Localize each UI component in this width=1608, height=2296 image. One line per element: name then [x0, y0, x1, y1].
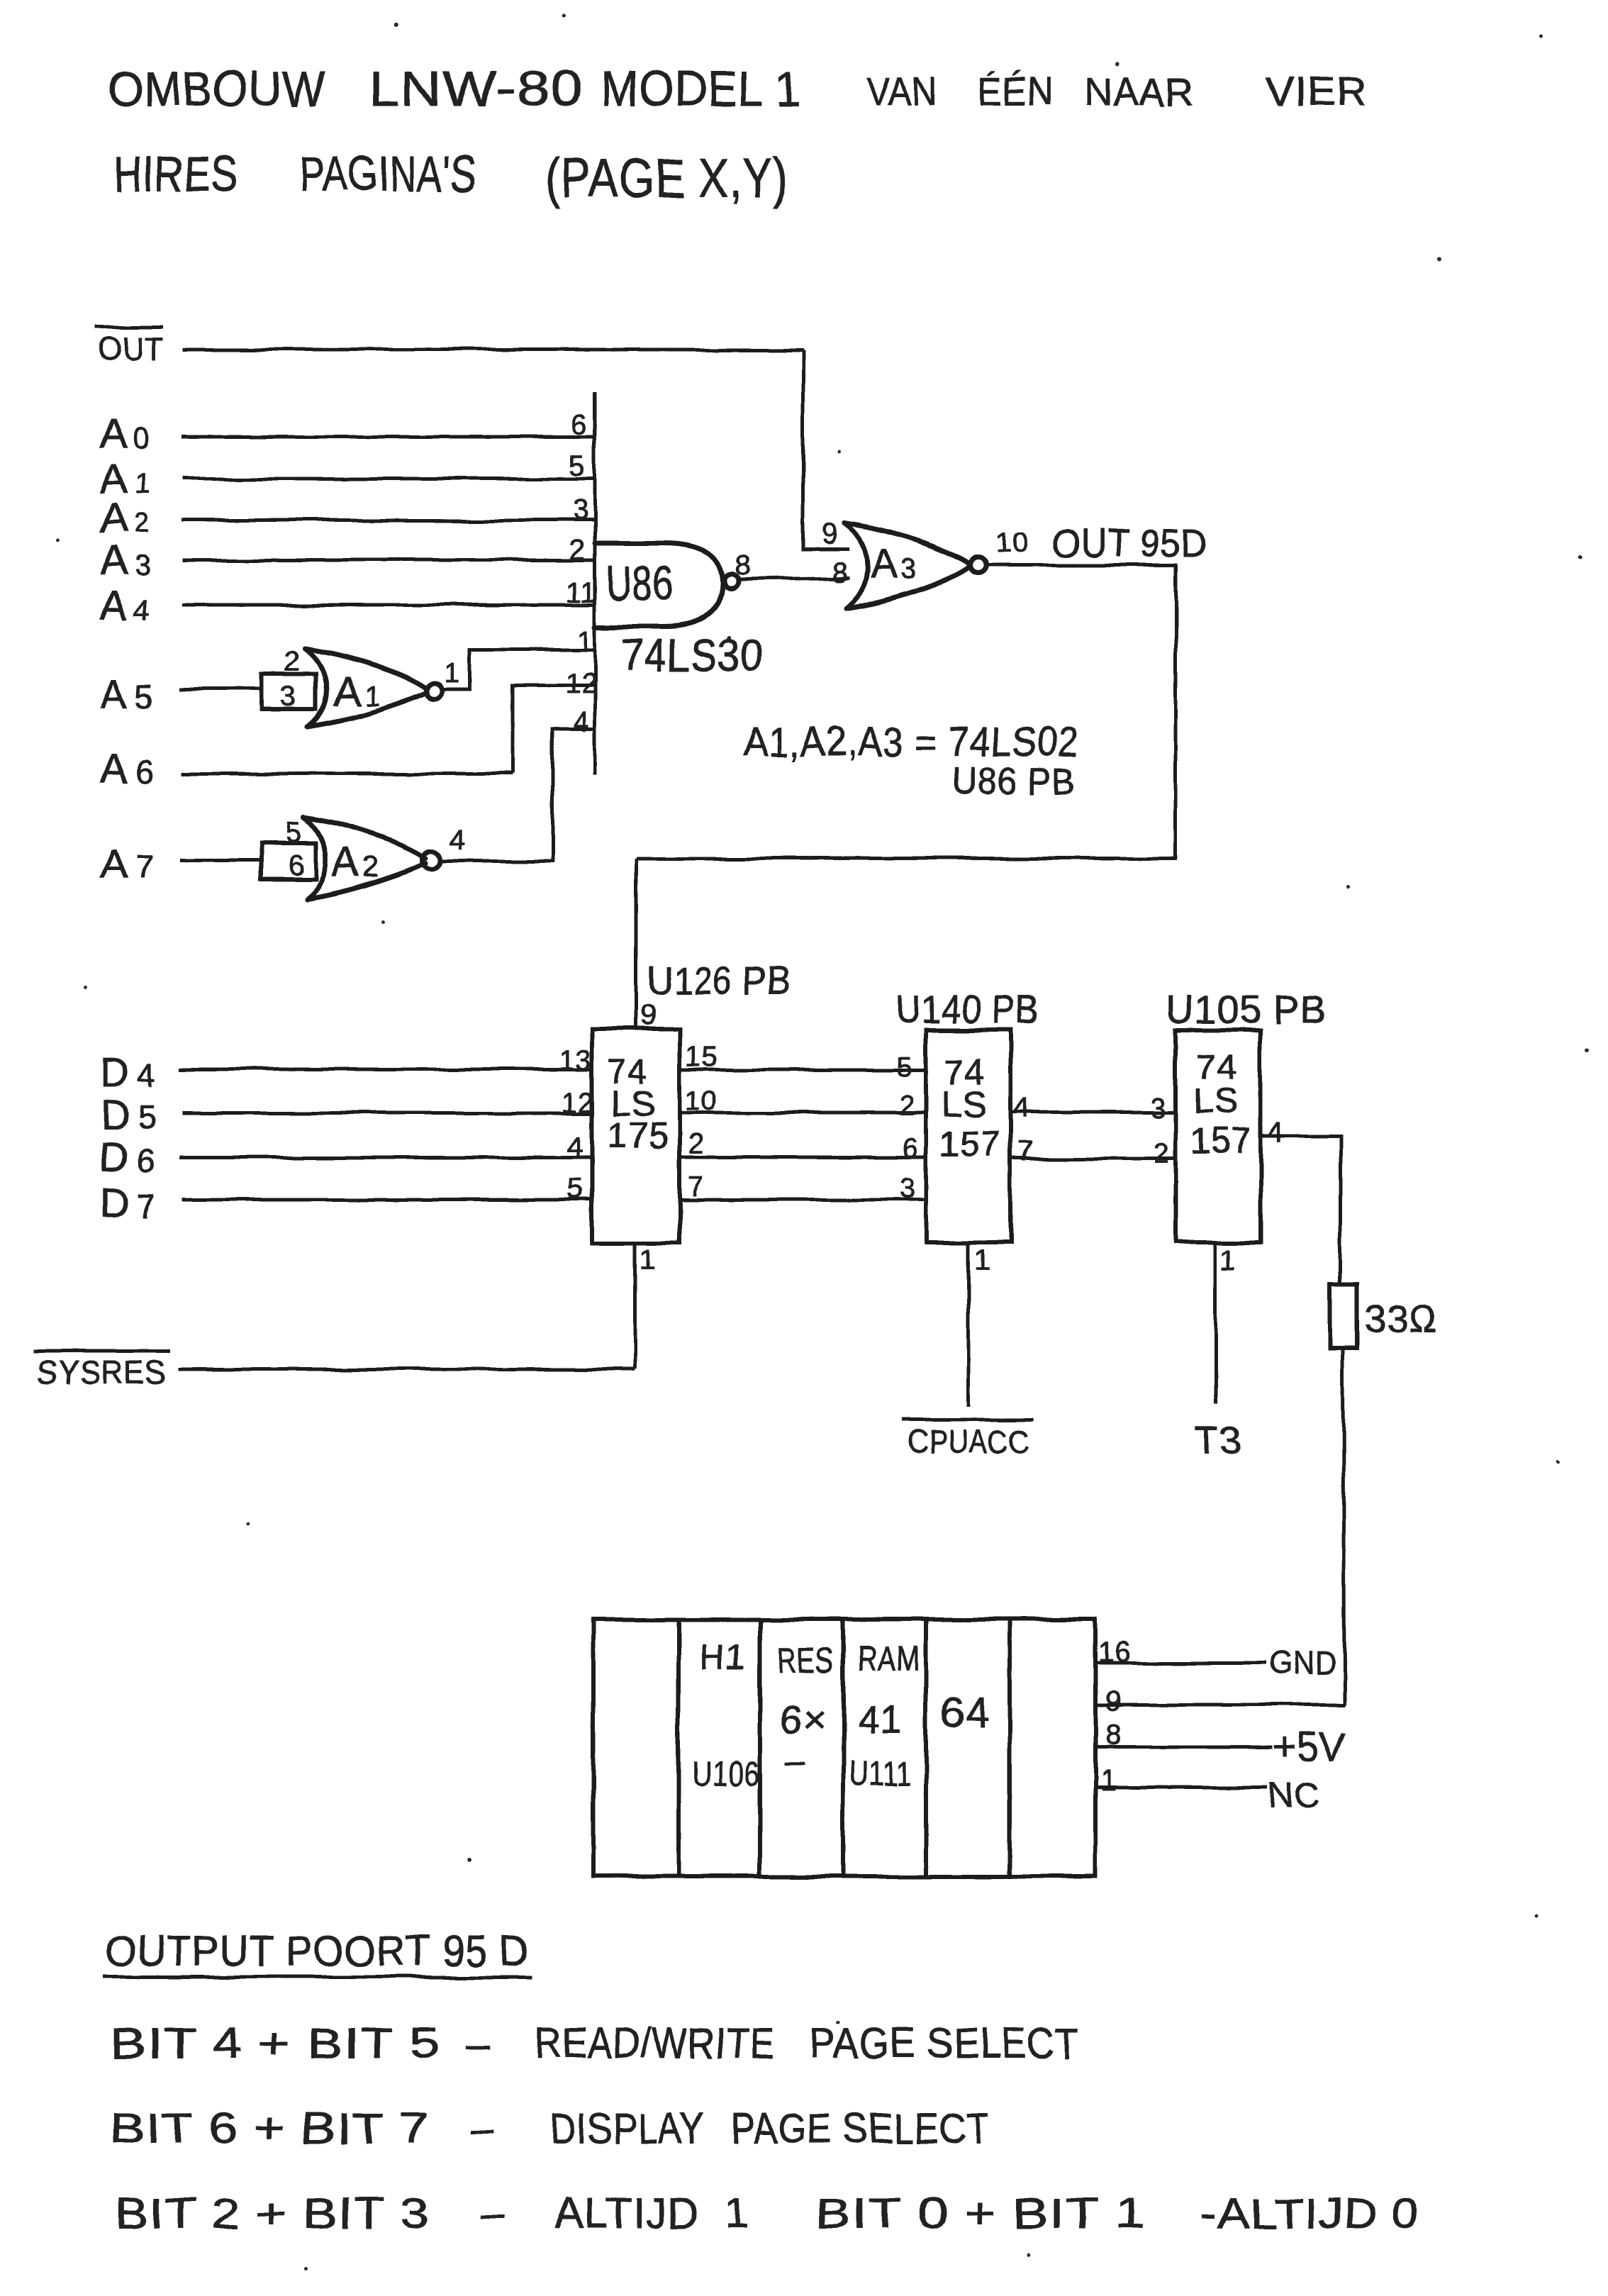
- svg-text:157: 157: [939, 1124, 1000, 1164]
- svg-text:D6: D6: [100, 1135, 156, 1181]
- svg-text:12: 12: [562, 1087, 595, 1118]
- svg-text:OUT 95D: OUT 95D: [1053, 520, 1207, 565]
- svg-text:RES: RES: [777, 1641, 834, 1681]
- wire down to U126 pin 9: [635, 859, 639, 1029]
- svg-text:U86 PB: U86 PB: [952, 761, 1076, 802]
- svg-text:U111: U111: [849, 1755, 912, 1793]
- svg-text:CPUACC: CPUACC: [908, 1423, 1029, 1460]
- wire pin9 to resistor: [1095, 1703, 1345, 1707]
- wire U126 pin1 down: [634, 1243, 637, 1369]
- wire D5: [182, 1112, 592, 1115]
- svg-text:3: 3: [572, 495, 588, 526]
- title line 1: [108, 61, 1367, 116]
- svg-text:ALTIJD: ALTIJD: [555, 2190, 700, 2237]
- svg-text:2: 2: [898, 1091, 915, 1122]
- svg-text:8: 8: [831, 557, 847, 588]
- svg-text:6: 6: [571, 409, 588, 440]
- svg-text:+5V: +5V: [1273, 1724, 1346, 1768]
- svg-text:PAGE SELECT: PAGE SELECT: [730, 2105, 990, 2152]
- svg-text:A6: A6: [100, 746, 154, 792]
- svg-text:4: 4: [1268, 1117, 1284, 1148]
- svg-text:3: 3: [1150, 1093, 1166, 1124]
- wire U140 pin4 to U105 pin3: [1011, 1111, 1176, 1115]
- svg-text:A5: A5: [100, 671, 154, 718]
- nor gate A1 input tie box: [262, 674, 316, 709]
- wire resistor to RAM pin 9: [1344, 1348, 1344, 1705]
- svg-text:PAGINA'S: PAGINA'S: [299, 146, 476, 201]
- svg-text:1: 1: [725, 2190, 749, 2237]
- resistor 33 ohm: [1331, 1285, 1357, 1348]
- svg-text:2: 2: [284, 646, 300, 677]
- svg-text:2: 2: [569, 535, 586, 566]
- title line 2: [113, 146, 788, 209]
- wire A3 output: [987, 564, 1178, 567]
- svg-text:2: 2: [688, 1128, 704, 1159]
- wire U126 pin10 to U140 pin2: [679, 1112, 926, 1115]
- wire A1: [182, 477, 595, 481]
- svg-text:–: –: [465, 2019, 489, 2067]
- wire D4: [179, 1068, 592, 1071]
- svg-text:–: –: [480, 2190, 504, 2237]
- wire U140 pin1 to CPUACC: [967, 1242, 971, 1406]
- wire OUT95D horizontal return: [637, 857, 1178, 861]
- svg-text:OUTPUT POORT 95 D: OUTPUT POORT 95 D: [105, 1927, 530, 1975]
- svg-text:(PAGE X,Y): (PAGE X,Y): [545, 147, 788, 209]
- svg-text:74LS30: 74LS30: [621, 631, 764, 680]
- note bit 6/7: [110, 2105, 990, 2152]
- svg-text:175: 175: [608, 1116, 669, 1156]
- svg-text:15: 15: [685, 1041, 718, 1072]
- wire A7: [179, 859, 262, 862]
- wire U126 pin7 to U140 pin3: [679, 1198, 926, 1202]
- svg-text:4: 4: [1014, 1093, 1030, 1124]
- wire pin1 to NC: [1095, 1786, 1268, 1790]
- svg-text:3: 3: [898, 1173, 915, 1204]
- svg-text:-ALTIJD 0: -ALTIJD 0: [1200, 2190, 1420, 2237]
- svg-text:U86: U86: [605, 557, 674, 611]
- wire A2: [182, 519, 595, 523]
- svg-text:D4: D4: [100, 1049, 156, 1096]
- svg-text:9: 9: [822, 518, 839, 550]
- wire A3: [182, 559, 595, 562]
- svg-text:5: 5: [896, 1051, 912, 1082]
- svg-text:OUT: OUT: [97, 330, 163, 367]
- svg-text:2: 2: [1153, 1138, 1169, 1169]
- svg-text:1: 1: [640, 1244, 656, 1276]
- wire A4: [182, 603, 595, 607]
- heading OUTPUT POORT 95 D: [103, 1927, 532, 1977]
- net CPUACC label: [902, 1420, 1034, 1460]
- svg-text:10: 10: [995, 527, 1029, 558]
- svg-text:1: 1: [1221, 1244, 1237, 1276]
- svg-text:DISPLAY: DISPLAY: [550, 2105, 705, 2152]
- svg-text:33Ω: 33Ω: [1364, 1298, 1437, 1340]
- svg-text:6×: 6×: [780, 1697, 827, 1741]
- svg-text:5: 5: [567, 1174, 584, 1205]
- wire U86 output to A3: [739, 578, 849, 579]
- svg-text:9: 9: [1105, 1685, 1122, 1717]
- svg-text:PAGE SELECT: PAGE SELECT: [810, 2019, 1080, 2067]
- svg-text:ÉÉN: ÉÉN: [978, 69, 1053, 113]
- svg-text:13: 13: [559, 1044, 592, 1076]
- svg-text:LS: LS: [1193, 1081, 1238, 1121]
- svg-text:9: 9: [641, 1000, 657, 1031]
- svg-text:6: 6: [901, 1133, 917, 1164]
- svg-text:4: 4: [450, 824, 466, 855]
- IC U126 74LS175: [592, 1029, 679, 1243]
- svg-text:1: 1: [577, 625, 593, 657]
- svg-text:HIRES: HIRES: [113, 146, 238, 201]
- svg-text:BIT 6 + BIT 7: BIT 6 + BIT 7: [110, 2105, 430, 2152]
- svg-text:READ/WRITE: READ/WRITE: [535, 2019, 775, 2067]
- IC U105 74LS157: [1176, 1030, 1261, 1242]
- svg-text:LS: LS: [942, 1084, 987, 1124]
- node SYSRES label: [34, 1351, 170, 1391]
- note bit 4/5: [110, 2019, 1080, 2067]
- svg-text:BIT 0 + BIT 1: BIT 0 + BIT 1: [815, 2190, 1145, 2237]
- svg-text:157: 157: [1190, 1121, 1251, 1161]
- svg-text:1: 1: [974, 1244, 990, 1276]
- wire SYSRES: [178, 1368, 635, 1371]
- svg-text:T3: T3: [1195, 1417, 1242, 1461]
- svg-text:1: 1: [1100, 1766, 1117, 1797]
- svg-text:U106: U106: [691, 1755, 760, 1793]
- nor gate A2: [304, 818, 440, 898]
- wire U140 pin7 to U105 pin2: [1011, 1157, 1176, 1161]
- wire OUT95D vertical: [1175, 565, 1178, 859]
- wire U105 pin1 to T3: [1215, 1242, 1218, 1404]
- input bus line of U86: [593, 392, 597, 774]
- wire OUT vertical drop: [803, 350, 849, 549]
- svg-text:41: 41: [857, 1697, 903, 1741]
- svg-text:SYSRES: SYSRES: [38, 1354, 166, 1391]
- RAM block U106-U111: [593, 1620, 1095, 1876]
- svg-text:8: 8: [735, 550, 751, 581]
- svg-text:A1,A2,A3 = 74LS02: A1,A2,A3 = 74LS02: [743, 719, 1079, 765]
- svg-text:BIT 4 + BIT 5: BIT 4 + BIT 5: [110, 2019, 440, 2067]
- wire A2 output to pin 4: [440, 730, 595, 861]
- wire U126 pin15 to U140 pin5: [679, 1068, 926, 1071]
- svg-text:H1: H1: [700, 1638, 747, 1678]
- svg-text:1: 1: [444, 658, 460, 689]
- wire A6 to pin 12: [513, 685, 595, 774]
- svg-text:5: 5: [286, 817, 302, 848]
- node OUT label: [94, 327, 163, 367]
- svg-text:11: 11: [566, 577, 597, 608]
- wire OUT horizontal: [182, 348, 803, 352]
- svg-text:5: 5: [569, 450, 586, 481]
- svg-text:VIER: VIER: [1266, 69, 1367, 113]
- svg-text:A7: A7: [100, 841, 154, 887]
- wire A5: [179, 688, 262, 691]
- svg-text:VAN: VAN: [867, 69, 937, 113]
- note bit 2/3 bit 0/1: [115, 2190, 1420, 2237]
- svg-text:4: 4: [567, 1131, 584, 1162]
- svg-text:–: –: [786, 1741, 806, 1780]
- svg-text:NC: NC: [1268, 1776, 1320, 1815]
- svg-text:7: 7: [1018, 1136, 1034, 1167]
- svg-text:GND: GND: [1271, 1644, 1336, 1681]
- svg-text:D5: D5: [100, 1092, 156, 1138]
- wire A6: [182, 772, 513, 776]
- nor gate A1: [305, 649, 442, 727]
- wire D6: [179, 1156, 592, 1159]
- svg-text:OMBOUW: OMBOUW: [108, 61, 325, 116]
- svg-text:U105 PB: U105 PB: [1166, 987, 1327, 1032]
- wire pin16 to GND: [1095, 1661, 1268, 1665]
- svg-text:6: 6: [288, 849, 304, 881]
- svg-text:D7: D7: [100, 1180, 156, 1226]
- wire U126 pin2 to U140 pin6: [679, 1156, 926, 1159]
- svg-text:3: 3: [281, 681, 297, 712]
- svg-text:U140 PB: U140 PB: [895, 987, 1039, 1032]
- nand gate U86: [595, 543, 738, 627]
- nor gate A3: [845, 523, 986, 608]
- svg-text:U126 PB: U126 PB: [647, 958, 791, 1003]
- svg-text:BIT 2 + BIT 3: BIT 2 + BIT 3: [115, 2190, 430, 2237]
- wire U105 pin4 output: [1261, 1136, 1341, 1285]
- wire D7: [182, 1198, 592, 1202]
- IC U140 74LS157: [926, 1030, 1011, 1242]
- svg-text:4: 4: [573, 707, 589, 738]
- svg-text:64: 64: [941, 1689, 990, 1737]
- wire pin8 to +5V: [1095, 1746, 1273, 1749]
- wire A1 output to pin 1: [442, 650, 595, 690]
- svg-text:–: –: [470, 2105, 494, 2152]
- nor gate A2 input tie box: [262, 843, 316, 879]
- svg-text:7: 7: [688, 1171, 704, 1202]
- svg-text:LNW-80: LNW-80: [368, 61, 582, 116]
- svg-text:RAM: RAM: [857, 1640, 920, 1678]
- svg-text:MODEL 1: MODEL 1: [601, 61, 801, 116]
- wire A0: [182, 435, 595, 439]
- svg-text:NAAR: NAAR: [1084, 69, 1195, 113]
